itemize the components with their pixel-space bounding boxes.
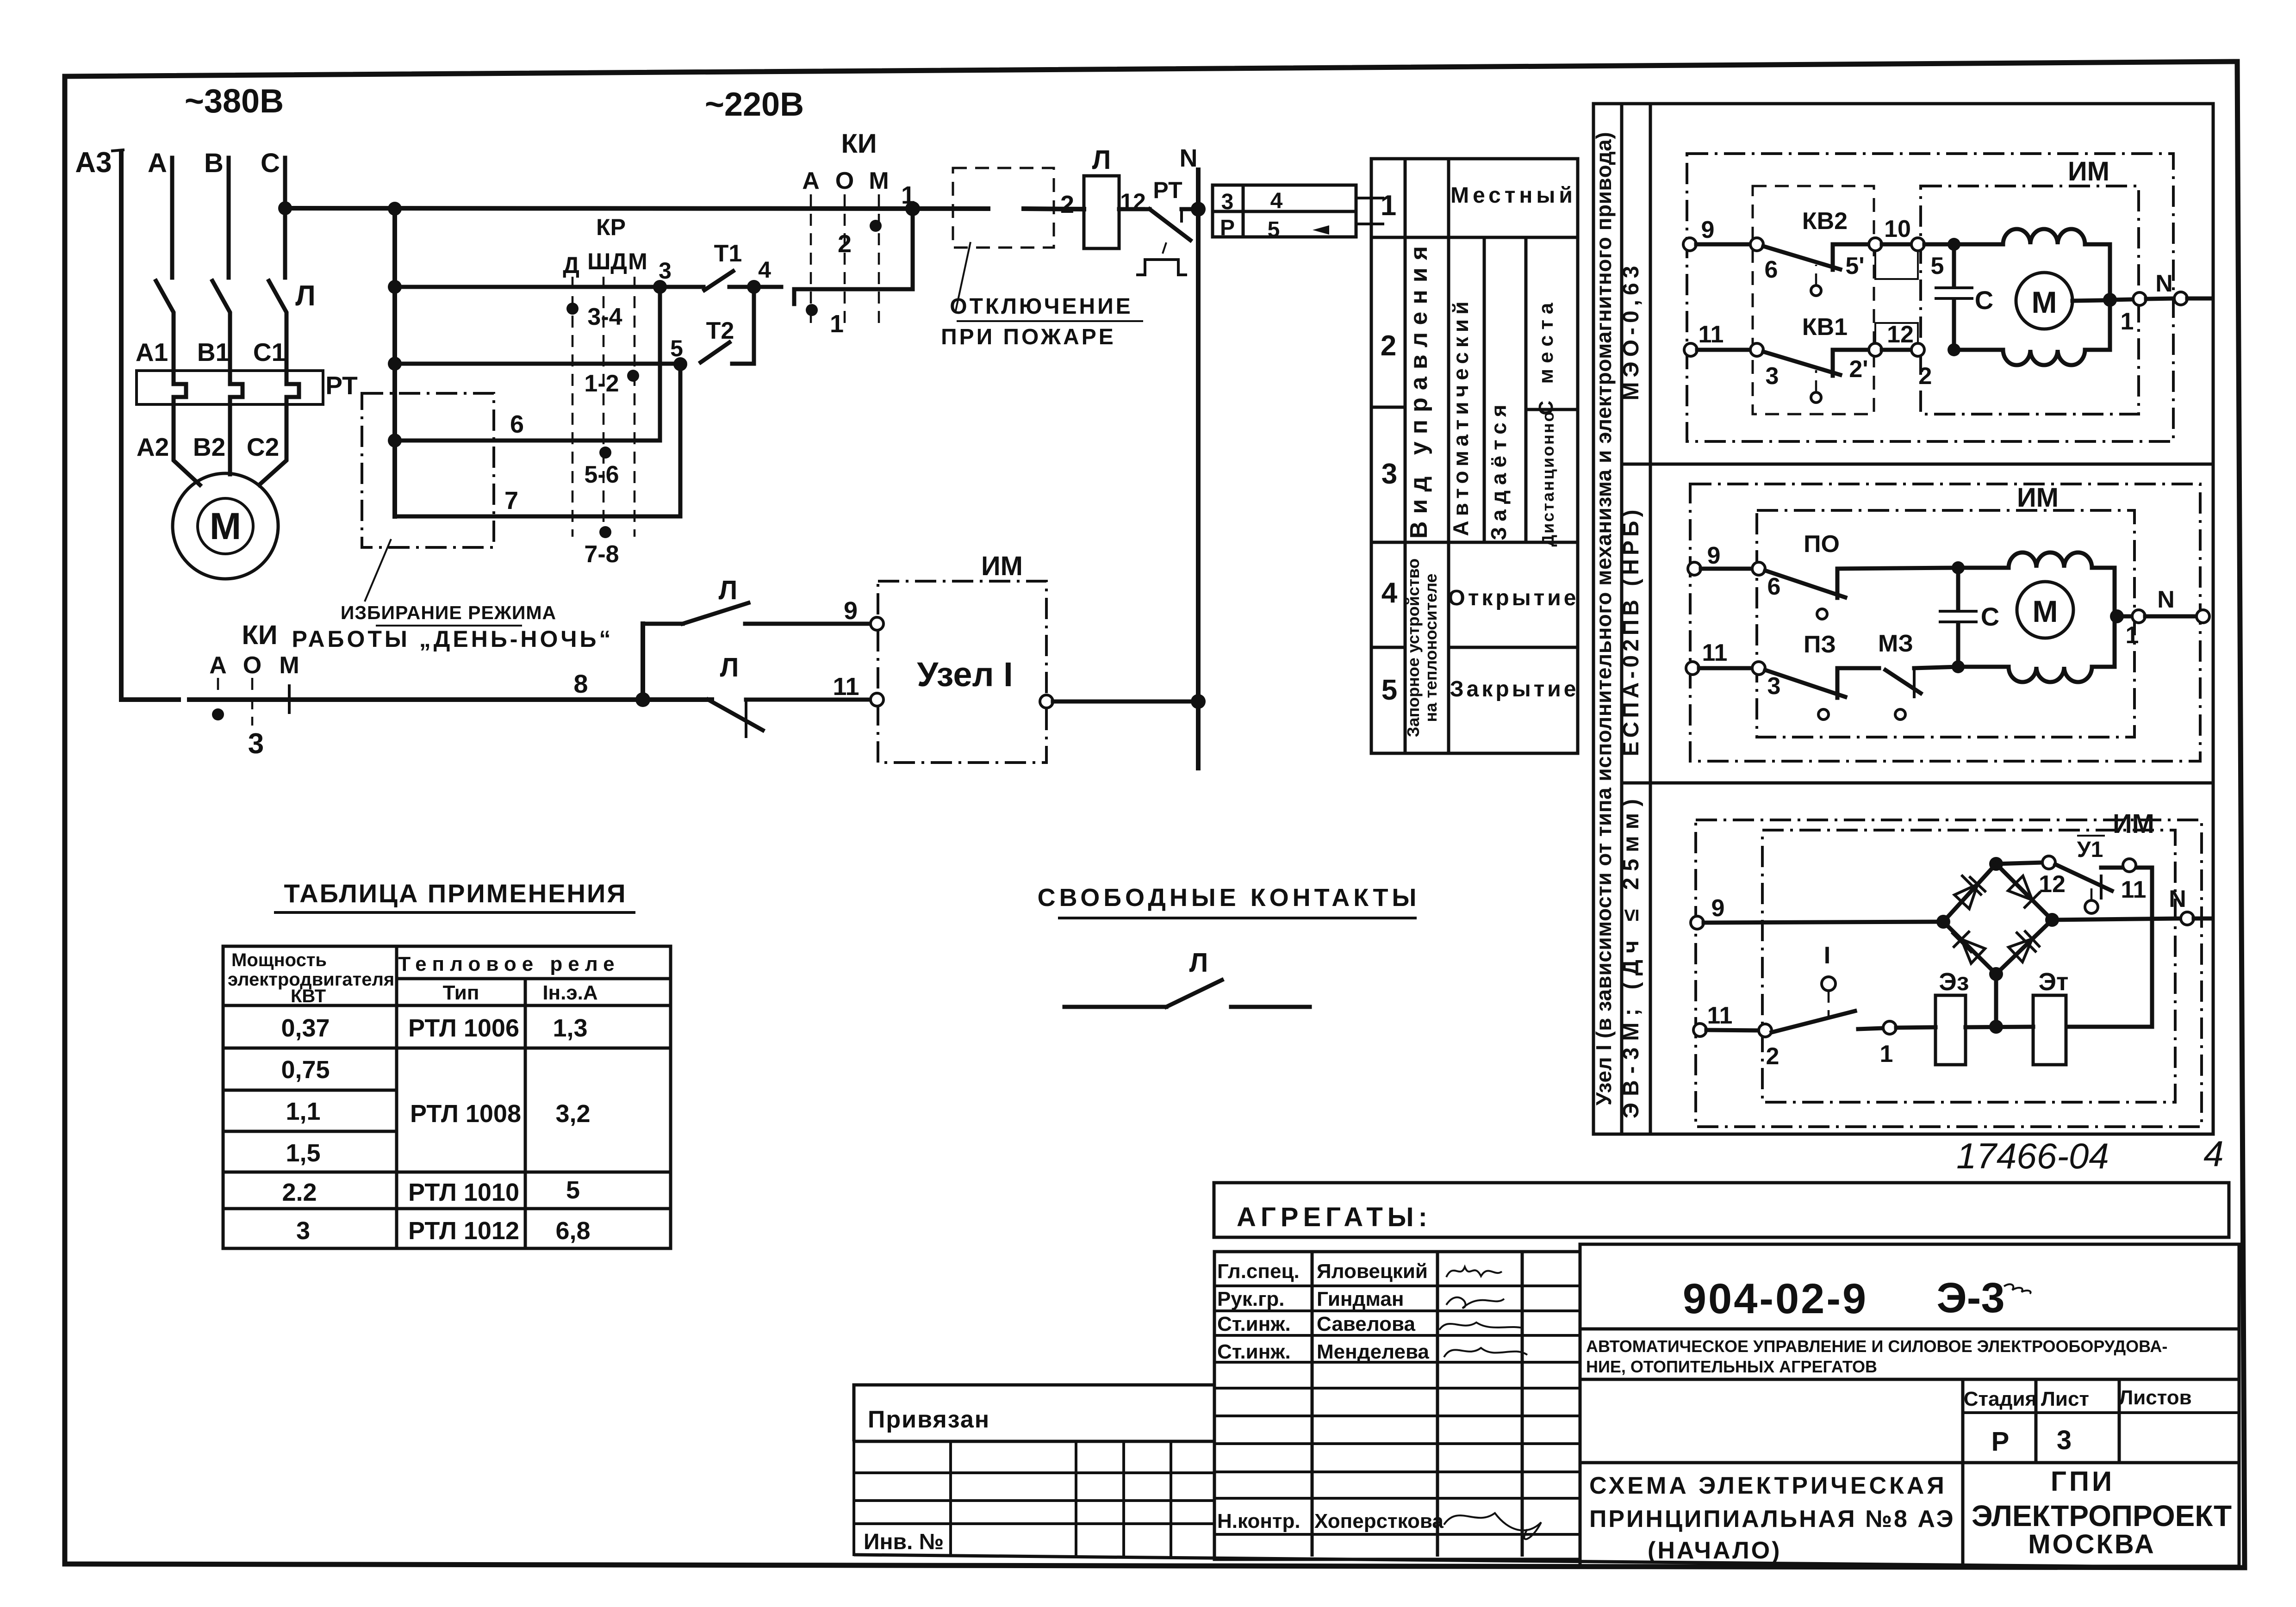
- dot 3-4 marker: [566, 303, 579, 315]
- free contact left wire: [1064, 1005, 1166, 1009]
- c3 U1 tick: [2100, 876, 2103, 898]
- free contact blade: [1166, 980, 1222, 1007]
- col line 2: [1447, 159, 1450, 753]
- svg-text:1,5: 1,5: [286, 1139, 320, 1167]
- svg-text:КВ2: КВ2: [1802, 208, 1848, 235]
- wire node3 to row3: [658, 287, 662, 441]
- c1 wire 10-5: [1882, 242, 1911, 247]
- c1 circle 5: [1911, 238, 1924, 251]
- svg-text:5: 5: [1268, 217, 1280, 242]
- row1 fixed segment with node 4: [729, 285, 781, 289]
- svg-text:Стадия: Стадия: [1964, 1388, 2037, 1410]
- RT release hook: [1163, 242, 1166, 254]
- left rows under privyazan: [854, 1441, 1214, 1555]
- underline application table: [275, 911, 634, 914]
- L NC contact branch (11): [643, 698, 708, 702]
- node 4: [747, 280, 761, 294]
- wire uzel to N: [1053, 700, 1198, 704]
- row4 wire (contacts 7-8): [395, 515, 680, 519]
- svg-text:N: N: [2157, 586, 2175, 613]
- c3 wire N to edge: [2194, 917, 2210, 921]
- c2 bottom node dot: [1952, 660, 1965, 673]
- svg-text:Вид управления: Вид управления: [1406, 239, 1432, 539]
- c3 wire 11-2: [1706, 1030, 1759, 1030]
- svg-text:С: С: [1975, 285, 1993, 315]
- app row line 5: [223, 1207, 671, 1210]
- strip col line 2: [1649, 104, 1652, 1134]
- node C-rail junction: [278, 201, 292, 215]
- app row line 3 (col1): [223, 1130, 397, 1133]
- c2 motor circle: [2017, 582, 2073, 638]
- L NO fixed wire to 9: [745, 622, 870, 626]
- svg-text:ЕСПА-02ПВ (НРБ): ЕСПА-02ПВ (НРБ): [1619, 506, 1643, 757]
- svg-text:М: М: [2033, 594, 2058, 628]
- row line 2a (col1 only): [1371, 406, 1405, 409]
- c1 top winding: [2003, 229, 2085, 244]
- c3 diode LT: [1954, 876, 1985, 909]
- c3 bridge edge LB: [1943, 922, 1996, 974]
- svg-text:11: 11: [2121, 876, 2147, 903]
- c1 bottom winding: [2003, 350, 2085, 365]
- svg-text:Т1: Т1: [714, 240, 742, 267]
- svg-text:А1: А1: [136, 338, 168, 366]
- svg-text:Тип: Тип: [443, 981, 479, 1004]
- c3 bridge edge TR: [1996, 864, 2052, 920]
- svg-text:4: 4: [1381, 577, 1398, 609]
- svg-text:1: 1: [2126, 622, 2139, 649]
- svg-text:Д: Д: [563, 252, 579, 278]
- uzel big rect: [1593, 104, 2213, 1134]
- svg-text:ПО: ПО: [1804, 531, 1840, 558]
- svg-text:А: А: [148, 148, 167, 178]
- svg-text:Р: Р: [1991, 1427, 2010, 1457]
- svg-text:Р: Р: [1220, 216, 1235, 240]
- c2 circle 3: [1752, 662, 1765, 675]
- svg-text:Эз: Эз: [1939, 968, 1969, 996]
- c2 MZ actuator circle: [1895, 709, 1905, 720]
- c3 diode BR: [2009, 931, 2039, 962]
- svg-text:Хоперсткова: Хоперсткова: [1314, 1510, 1444, 1533]
- KI upper dashed tick O: [844, 194, 846, 324]
- svg-text:9: 9: [844, 597, 858, 625]
- c1 edge circle: [2174, 292, 2187, 305]
- svg-text:6: 6: [1767, 573, 1781, 600]
- c3 N wire from bridge right: [2052, 918, 2181, 920]
- node N-rail: [1191, 202, 1206, 217]
- KI lower tick M: [288, 686, 291, 713]
- svg-text:1-2: 1-2: [584, 370, 619, 397]
- svg-text:КВ1: КВ1: [1802, 314, 1848, 341]
- svg-text:11: 11: [1699, 321, 1724, 348]
- svg-text:ИЗБИРАНИЕ РЕЖИМА: ИЗБИРАНИЕ РЕЖИМА: [341, 602, 556, 623]
- app header divider: [397, 977, 671, 980]
- svg-text:У1: У1: [2077, 838, 2103, 862]
- L NO contact branch (9): [643, 622, 683, 626]
- svg-text:11: 11: [833, 673, 859, 701]
- c2 cap plates: [1940, 611, 1976, 622]
- sig row3 signature: [1439, 1322, 1523, 1330]
- sig col line 1: [1311, 1252, 1314, 1557]
- main 220V rail: [285, 208, 988, 209]
- svg-text:ИМ: ИМ: [2017, 483, 2059, 513]
- svg-text:5: 5: [1931, 253, 1944, 279]
- day-night selection dash-dot box: [362, 393, 494, 547]
- c2 wire to edge circle: [2145, 614, 2196, 619]
- svg-text:10: 10: [1884, 216, 1911, 242]
- c3 IM dash-dot box: [1762, 830, 2175, 1102]
- leader to fire text: [955, 242, 971, 313]
- c1 capacitor top lead: [1952, 244, 1956, 285]
- c2 wire 9-6: [1701, 567, 1752, 571]
- svg-text:Листов: Листов: [2119, 1386, 2191, 1409]
- svg-text:2: 2: [1060, 191, 1074, 218]
- c3 wire 11 down to Et line: [2069, 868, 2152, 1027]
- c3 U1 actuator circle: [2085, 900, 2098, 913]
- c2 circle 6: [1752, 562, 1765, 575]
- svg-text:Ст.инж.: Ст.инж.: [1217, 1340, 1291, 1363]
- c3 fixed wire to 11: [2101, 866, 2152, 870]
- svg-text:1,1: 1,1: [286, 1098, 320, 1125]
- c1 bottom node dot: [1948, 343, 1960, 356]
- svg-text:12: 12: [2039, 871, 2066, 898]
- c3 bridge edge LT: [1943, 864, 1996, 922]
- c2 PO actuator circle: [1817, 609, 1827, 619]
- c1 wire to cell edge: [2187, 297, 2210, 301]
- svg-text:М: М: [2032, 285, 2057, 319]
- c2 cap top lead: [1956, 568, 1960, 610]
- sig row lines: [1214, 1286, 1580, 1534]
- svg-text:ПРИ ПОЖАРЕ: ПРИ ПОЖАРЕ: [941, 325, 1116, 349]
- dot 7-8 marker: [599, 526, 611, 538]
- c1 capacitor bottom lead: [1952, 301, 1956, 350]
- c1 circle 12b: [1911, 343, 1924, 356]
- c3 N circle: [2181, 912, 2194, 925]
- svg-text:1: 1: [2121, 308, 2134, 335]
- phase A vertical: [170, 158, 174, 278]
- c2 wire 11-3: [1699, 666, 1752, 670]
- svg-text:Инв. №: Инв. №: [864, 1530, 944, 1554]
- application table frame: [223, 946, 671, 1248]
- c1 wire 5 to node: [1924, 242, 1954, 247]
- svg-text:С: С: [1981, 602, 1999, 631]
- svg-text:РТЛ 1006: РТЛ 1006: [408, 1014, 519, 1042]
- c2 terminal 9: [1688, 562, 1701, 575]
- svg-text:Л: Л: [1092, 145, 1111, 175]
- svg-text:6,8: 6,8: [555, 1217, 590, 1245]
- app row line 2 (col1): [223, 1089, 397, 1092]
- c1 wire N to edge circle: [2146, 298, 2174, 299]
- node KR row1: [388, 280, 402, 294]
- svg-text:3: 3: [659, 258, 672, 284]
- svg-text:3: 3: [1766, 363, 1779, 390]
- app row line 4: [223, 1171, 671, 1174]
- c1 wire 12: [1882, 348, 1911, 352]
- row1 wire (contacts 3-4): [395, 285, 703, 289]
- svg-text:РТ: РТ: [1153, 177, 1182, 203]
- control-type table frame: [1371, 159, 1578, 753]
- lead B2: [228, 404, 232, 474]
- c3 bridge right node: [2045, 913, 2059, 927]
- svg-text:Савелова: Савелова: [1317, 1313, 1415, 1335]
- svg-text:В: В: [204, 148, 224, 178]
- svg-text:3: 3: [1381, 458, 1397, 490]
- c2 wire winding-corner down: [2092, 568, 2115, 616]
- terminal block stub lines: [1356, 198, 1383, 224]
- svg-text:МЭО-0,63: МЭО-0,63: [1619, 261, 1643, 401]
- phase B vertical: [227, 158, 231, 278]
- riser to L contact: [641, 624, 645, 700]
- c1 circle 10: [1869, 238, 1882, 251]
- svg-text:Н.контр.: Н.контр.: [1217, 1510, 1300, 1533]
- T2 fixed branch from node 4: [732, 287, 754, 364]
- c3 bridge bottom node: [1989, 967, 2003, 981]
- agregaty box: [1214, 1183, 2229, 1237]
- c2 PO blade: [1765, 571, 1845, 597]
- node 5: [673, 357, 687, 371]
- svg-text:Э-3: Э-3: [1936, 1274, 2004, 1322]
- svg-text:Местный: Местный: [1450, 183, 1576, 208]
- svg-text:6: 6: [1765, 256, 1778, 283]
- sig col line 2: [1436, 1252, 1439, 1557]
- line under object: [1580, 1378, 2239, 1381]
- svg-text:ПЗ: ПЗ: [1804, 631, 1836, 658]
- svg-text:О: О: [243, 652, 261, 679]
- c1 KV1 blade: [1763, 352, 1840, 375]
- c3 contact I blade: [1772, 1011, 1855, 1032]
- svg-text:НИЕ, ОТОПИТЕЛЬНЫХ АГРЕГАТОВ: НИЕ, ОТОПИТЕЛЬНЫХ АГРЕГАТОВ: [1586, 1357, 1877, 1376]
- RT release bracket: [1138, 260, 1186, 275]
- c1 KV1 actuator dash: [1815, 370, 1817, 392]
- svg-text:ИМ: ИМ: [2068, 156, 2109, 186]
- divider cell1/cell2: [1622, 463, 2213, 466]
- c2 PO fixed L: [1837, 568, 1958, 598]
- svg-text:РТ: РТ: [325, 371, 358, 400]
- svg-text:Л: Л: [719, 575, 738, 605]
- row3 wire (contacts 5-6): [395, 439, 660, 443]
- wire line 8 (bottom rail): [121, 697, 712, 702]
- app col line 1: [395, 946, 398, 1248]
- svg-text:Яловецкий: Яловецкий: [1317, 1260, 1428, 1283]
- c3 outer dash-dot box: [1696, 820, 2202, 1127]
- svg-text:9: 9: [1707, 542, 1721, 569]
- svg-text:3: 3: [1221, 190, 1234, 214]
- node 1 on rail: [905, 201, 920, 216]
- c1 jumper 12 above: [1875, 323, 1918, 343]
- svg-text:~380В: ~380В: [185, 83, 284, 120]
- c2 edge circle: [2196, 610, 2209, 623]
- coil L rectangle: [1084, 176, 1119, 248]
- svg-text:ИМ: ИМ: [981, 551, 1023, 581]
- c1 KV1 actuator circle: [1811, 392, 1821, 403]
- svg-text:12: 12: [1120, 189, 1146, 215]
- svg-text:3-4: 3-4: [587, 304, 622, 330]
- c1 KV dashed box: [1753, 186, 1874, 414]
- KR dashed column D: [572, 277, 574, 537]
- svg-text:Л: Л: [720, 652, 739, 683]
- svg-text:ГПИ: ГПИ: [2051, 1466, 2115, 1497]
- c3 I actuator circle: [1822, 977, 1836, 991]
- svg-text:2': 2': [1849, 356, 1868, 383]
- svg-text:2: 2: [1766, 1043, 1780, 1070]
- svg-text:МОСКВА: МОСКВА: [2028, 1529, 2156, 1559]
- svg-text:ШД: ШД: [587, 248, 627, 274]
- signature table frame: [1214, 1252, 1580, 1559]
- dot 1-2 marker: [627, 370, 639, 382]
- underline fire: [957, 320, 1143, 322]
- motor M inner circle: [198, 498, 253, 554]
- c3 mid dot: [1989, 1020, 2003, 1034]
- svg-text:3,2: 3,2: [555, 1100, 590, 1128]
- svg-text:1,3: 1,3: [553, 1014, 587, 1042]
- N vertical line: [1196, 170, 1201, 768]
- svg-text:1: 1: [1381, 190, 1396, 222]
- L NC tick: [745, 700, 747, 737]
- svg-text:Узел I (в зависимости от типа: Узел I (в зависимости от типа исполнител…: [1592, 132, 1616, 1105]
- svg-text:4: 4: [2203, 1133, 2223, 1174]
- c2 MZ fixed wire: [1914, 667, 1958, 668]
- main title box frame: [1580, 1244, 2239, 1566]
- fire disconnect dashed box: [953, 168, 1054, 248]
- svg-text:А: А: [209, 652, 227, 679]
- svg-text:МЗ: МЗ: [1878, 630, 1913, 657]
- L NO blade: [683, 603, 748, 624]
- privyazan box: [854, 1385, 1214, 1441]
- uzel terminal 9 circle: [871, 617, 884, 630]
- svg-text:5: 5: [566, 1176, 580, 1204]
- c3 wire 9 to bridge: [1704, 922, 1943, 923]
- c2 wire node1-N: [2117, 614, 2133, 619]
- svg-text:В1: В1: [197, 338, 230, 366]
- svg-text:СВОБОДНЫЕ КОНТАКТЫ: СВОБОДНЫЕ КОНТАКТЫ: [1038, 884, 1420, 912]
- RT NC contact blade: [1150, 209, 1190, 240]
- svg-text:6: 6: [510, 410, 524, 438]
- bottom edge of title tables: [854, 1555, 2241, 1568]
- svg-text:КИ: КИ: [841, 129, 877, 159]
- svg-text:РТЛ 1012: РТЛ 1012: [408, 1217, 519, 1245]
- svg-text:Дистанционно: Дистанционно: [1538, 410, 1557, 547]
- c3 I actuator dash: [1828, 991, 1830, 1016]
- svg-text:ОТКЛЮЧЕНИЕ: ОТКЛЮЧЕНИЕ: [950, 294, 1132, 319]
- c1 wire 9-6: [1696, 242, 1750, 247]
- KR dashed column ShD: [603, 277, 605, 537]
- svg-text:Гл.спец.: Гл.спец.: [1217, 1260, 1300, 1283]
- c3 diode LB: [1953, 932, 1985, 963]
- svg-text:С места: С места: [1535, 298, 1557, 416]
- KI upper dashed tick A: [810, 194, 812, 324]
- c1 KV2 blade: [1763, 246, 1840, 269]
- svg-text:17466-04: 17466-04: [1956, 1135, 2109, 1176]
- c2 wire node-top winding: [1958, 566, 2009, 570]
- underline: [376, 625, 522, 627]
- svg-text:Т2: Т2: [706, 317, 734, 344]
- c1 terminal 9: [1683, 238, 1696, 251]
- svg-text:О: О: [835, 168, 854, 194]
- svg-text:12: 12: [1887, 321, 1914, 348]
- phase C vertical: [283, 158, 287, 278]
- col line 1: [1404, 159, 1407, 753]
- c2 cap bottom lead: [1956, 624, 1960, 667]
- app row line 1: [223, 1047, 671, 1050]
- c3 Et rect: [2033, 995, 2066, 1065]
- c3 bridge edge BR: [1996, 920, 2052, 974]
- svg-text:3: 3: [296, 1217, 310, 1245]
- c1 motor circle: [2016, 273, 2072, 329]
- svg-text:3: 3: [248, 728, 264, 760]
- svg-text:2: 2: [838, 230, 852, 258]
- dot lower deck under A: [806, 304, 818, 316]
- c1 KV2 actuator circle: [1811, 285, 1821, 296]
- svg-text:М: М: [279, 652, 299, 679]
- c2 IM dash-dot box: [1757, 510, 2134, 737]
- row2 wire (contacts 1-2): [395, 362, 685, 366]
- strip col line 1: [1620, 104, 1624, 1134]
- svg-text:ЭЛЕКТРОПРОЕКТ: ЭЛЕКТРОПРОЕКТ: [1972, 1499, 2232, 1533]
- sig nkontr signature: [1444, 1513, 1541, 1539]
- svg-text:7-8: 7-8: [584, 541, 619, 568]
- KI lower deck wire: [794, 209, 913, 304]
- c1 wire 11-3: [1697, 348, 1750, 352]
- L NC fixed wire to 11: [746, 698, 870, 702]
- c3 U1 blade: [2055, 864, 2112, 891]
- c1 circle 3: [1750, 343, 1763, 356]
- node 3: [653, 280, 667, 294]
- svg-text:А2: А2: [137, 433, 169, 461]
- svg-text:Привязан: Привязан: [868, 1406, 990, 1433]
- svg-text:ПРИНЦИПИАЛЬНАЯ №8 АЭ: ПРИНЦИПИАЛЬНАЯ №8 АЭ: [1589, 1506, 1955, 1533]
- c1 node 1: [2103, 293, 2117, 307]
- c1 wire node-bottom winding: [1960, 348, 2003, 352]
- c2 wire bottom winding to node1: [2092, 616, 2115, 667]
- svg-text:2: 2: [1381, 330, 1396, 362]
- svg-text:СХЕМА ЭЛЕКТРИЧЕСКАЯ: СХЕМА ЭЛЕКТРИЧЕСКАЯ: [1589, 1472, 1947, 1499]
- c1 wire bottom winding to node1: [2085, 300, 2110, 350]
- c2 PZ blade: [1765, 670, 1845, 697]
- c3 wire top node to 12: [1996, 862, 2042, 864]
- svg-text:Л: Л: [1189, 948, 1208, 978]
- svg-text:(НАЧАЛО): (НАЧАЛО): [1648, 1537, 1781, 1564]
- c1 jumper 10-5: [1875, 251, 1918, 279]
- c1 IM dash-dot box: [1921, 186, 2139, 414]
- c1 KV2 actuator dash: [1815, 265, 1817, 285]
- sig row4 signature: [1444, 1348, 1527, 1357]
- c3 wire bridge bottom to mid dot: [1994, 974, 1998, 1027]
- c3 wire I fixed to circle 1: [1858, 1028, 1883, 1029]
- svg-text:1: 1: [901, 181, 915, 209]
- svg-text:7: 7: [504, 487, 518, 515]
- bus A3 (left vertical feeder): [119, 153, 124, 700]
- node rail-KR junction: [388, 202, 402, 216]
- dot 5-6 marker: [599, 447, 611, 459]
- KI lower tick A: [217, 678, 219, 696]
- svg-text:Мощность: Мощность: [231, 950, 327, 970]
- c3 circle 11: [2123, 859, 2136, 872]
- RT heater element phase B: [230, 371, 243, 404]
- wire L to RT contact: [1119, 207, 1150, 211]
- c3 wire Ez to dot: [1966, 1027, 2033, 1027]
- c3 terminal 11 bottom: [1693, 1024, 1706, 1036]
- KI lower tick O: [251, 678, 254, 726]
- row line 1: [1371, 236, 1578, 239]
- svg-text:Л: Л: [295, 280, 316, 312]
- app col line 2: [524, 979, 527, 1248]
- svg-text:В2: В2: [193, 433, 225, 461]
- svg-text:Запорное устройство: Запорное устройство: [1404, 558, 1423, 737]
- svg-text:Узел I: Узел I: [917, 655, 1013, 694]
- svg-text:АГРЕГАТЫ:: АГРЕГАТЫ:: [1237, 1202, 1432, 1232]
- c2 terminal 11: [1686, 662, 1699, 675]
- node KR row3: [388, 434, 402, 447]
- svg-text:на теплоносителе: на теплоносителе: [1421, 573, 1440, 722]
